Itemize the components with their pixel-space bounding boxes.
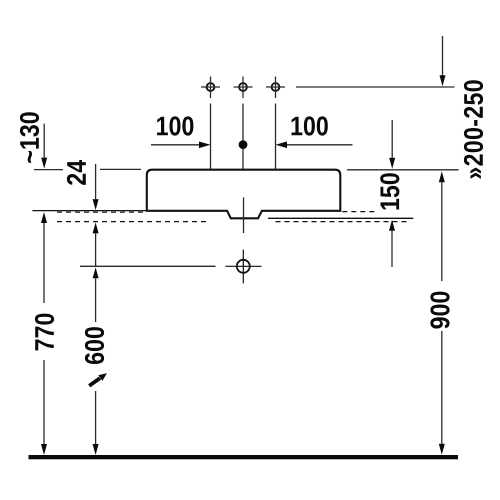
centerline below hole 3 (275, 104, 277, 170)
horizontal reference line at faucet level (296, 86, 455, 88)
dashed line upper left (57, 211, 147, 213)
centerline below hole 2 (242, 104, 244, 170)
dimension 900 line with arrows (439, 171, 445, 455)
washbasin outline (147, 170, 340, 219)
faucet hole circle 1 (201, 77, 220, 99)
dimension 24 arrows (93, 164, 99, 266)
faucet hole circle 3 (266, 77, 285, 99)
dimension 150 arrows (389, 120, 395, 267)
dimension 200-250 top arrow pointing down (440, 36, 446, 86)
dashed line upper right (342, 211, 374, 213)
dashed line lower left (57, 221, 210, 223)
dimension 100 right: line and arrow (276, 116, 353, 148)
dimension ~130 arrow (41, 124, 47, 169)
dimension 770 line with arrows (41, 212, 47, 455)
label 900 rotated (430, 292, 449, 329)
label ~130 rotated (20, 112, 39, 162)
dimension 100 left: line and arrow (151, 116, 211, 148)
floor line (29, 455, 459, 459)
label 600 rotated (85, 327, 104, 364)
dimension 600 line with arrows (93, 267, 99, 455)
faucet hole circle 2 (234, 77, 253, 99)
centerline below hole 1 (210, 104, 212, 170)
countertop solid line left (32, 210, 146, 212)
extension line at rim level left (34, 169, 63, 171)
label 200-250 rotated (464, 80, 483, 178)
drain circle with crosshair (225, 250, 261, 284)
countertop solid line right (268, 217, 413, 219)
small northeast arrow near 600 (89, 373, 107, 386)
label 24 rotated (67, 160, 86, 185)
drain centerline (243, 197, 245, 233)
extension line rim level right (347, 169, 459, 171)
label 770 rotated (35, 314, 54, 351)
filled center dot (239, 140, 248, 149)
line at 600 level (80, 265, 216, 267)
leader line rim level to 24 dimension (100, 168, 141, 170)
dashed line lower right (276, 221, 410, 223)
label 150 rotated (380, 173, 399, 209)
